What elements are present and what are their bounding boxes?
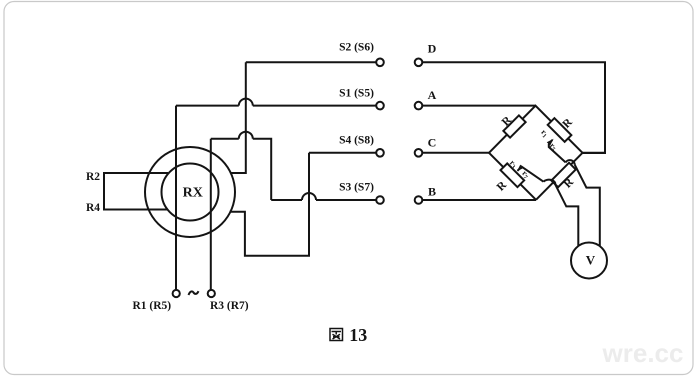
svg-text:D: D (428, 42, 437, 56)
svg-text:R2: R2 (86, 171, 100, 183)
svg-text:wre.cc: wre.cc (602, 338, 684, 368)
svg-text:RX: RX (183, 185, 203, 200)
svg-text:V: V (586, 253, 596, 268)
svg-text:R4: R4 (86, 202, 100, 214)
svg-text:S2 (S6): S2 (S6) (339, 41, 374, 53)
svg-text:S4 (S8): S4 (S8) (339, 134, 374, 146)
svg-text:13: 13 (349, 325, 367, 345)
svg-text:C: C (428, 136, 437, 150)
svg-text:S3 (S7): S3 (S7) (339, 181, 374, 193)
svg-text:B: B (428, 185, 436, 199)
svg-text:A: A (428, 88, 437, 102)
svg-text:R3 (R7): R3 (R7) (210, 300, 249, 312)
svg-text:S1 (S5): S1 (S5) (339, 87, 374, 99)
svg-text:R1 (R5): R1 (R5) (132, 300, 171, 312)
